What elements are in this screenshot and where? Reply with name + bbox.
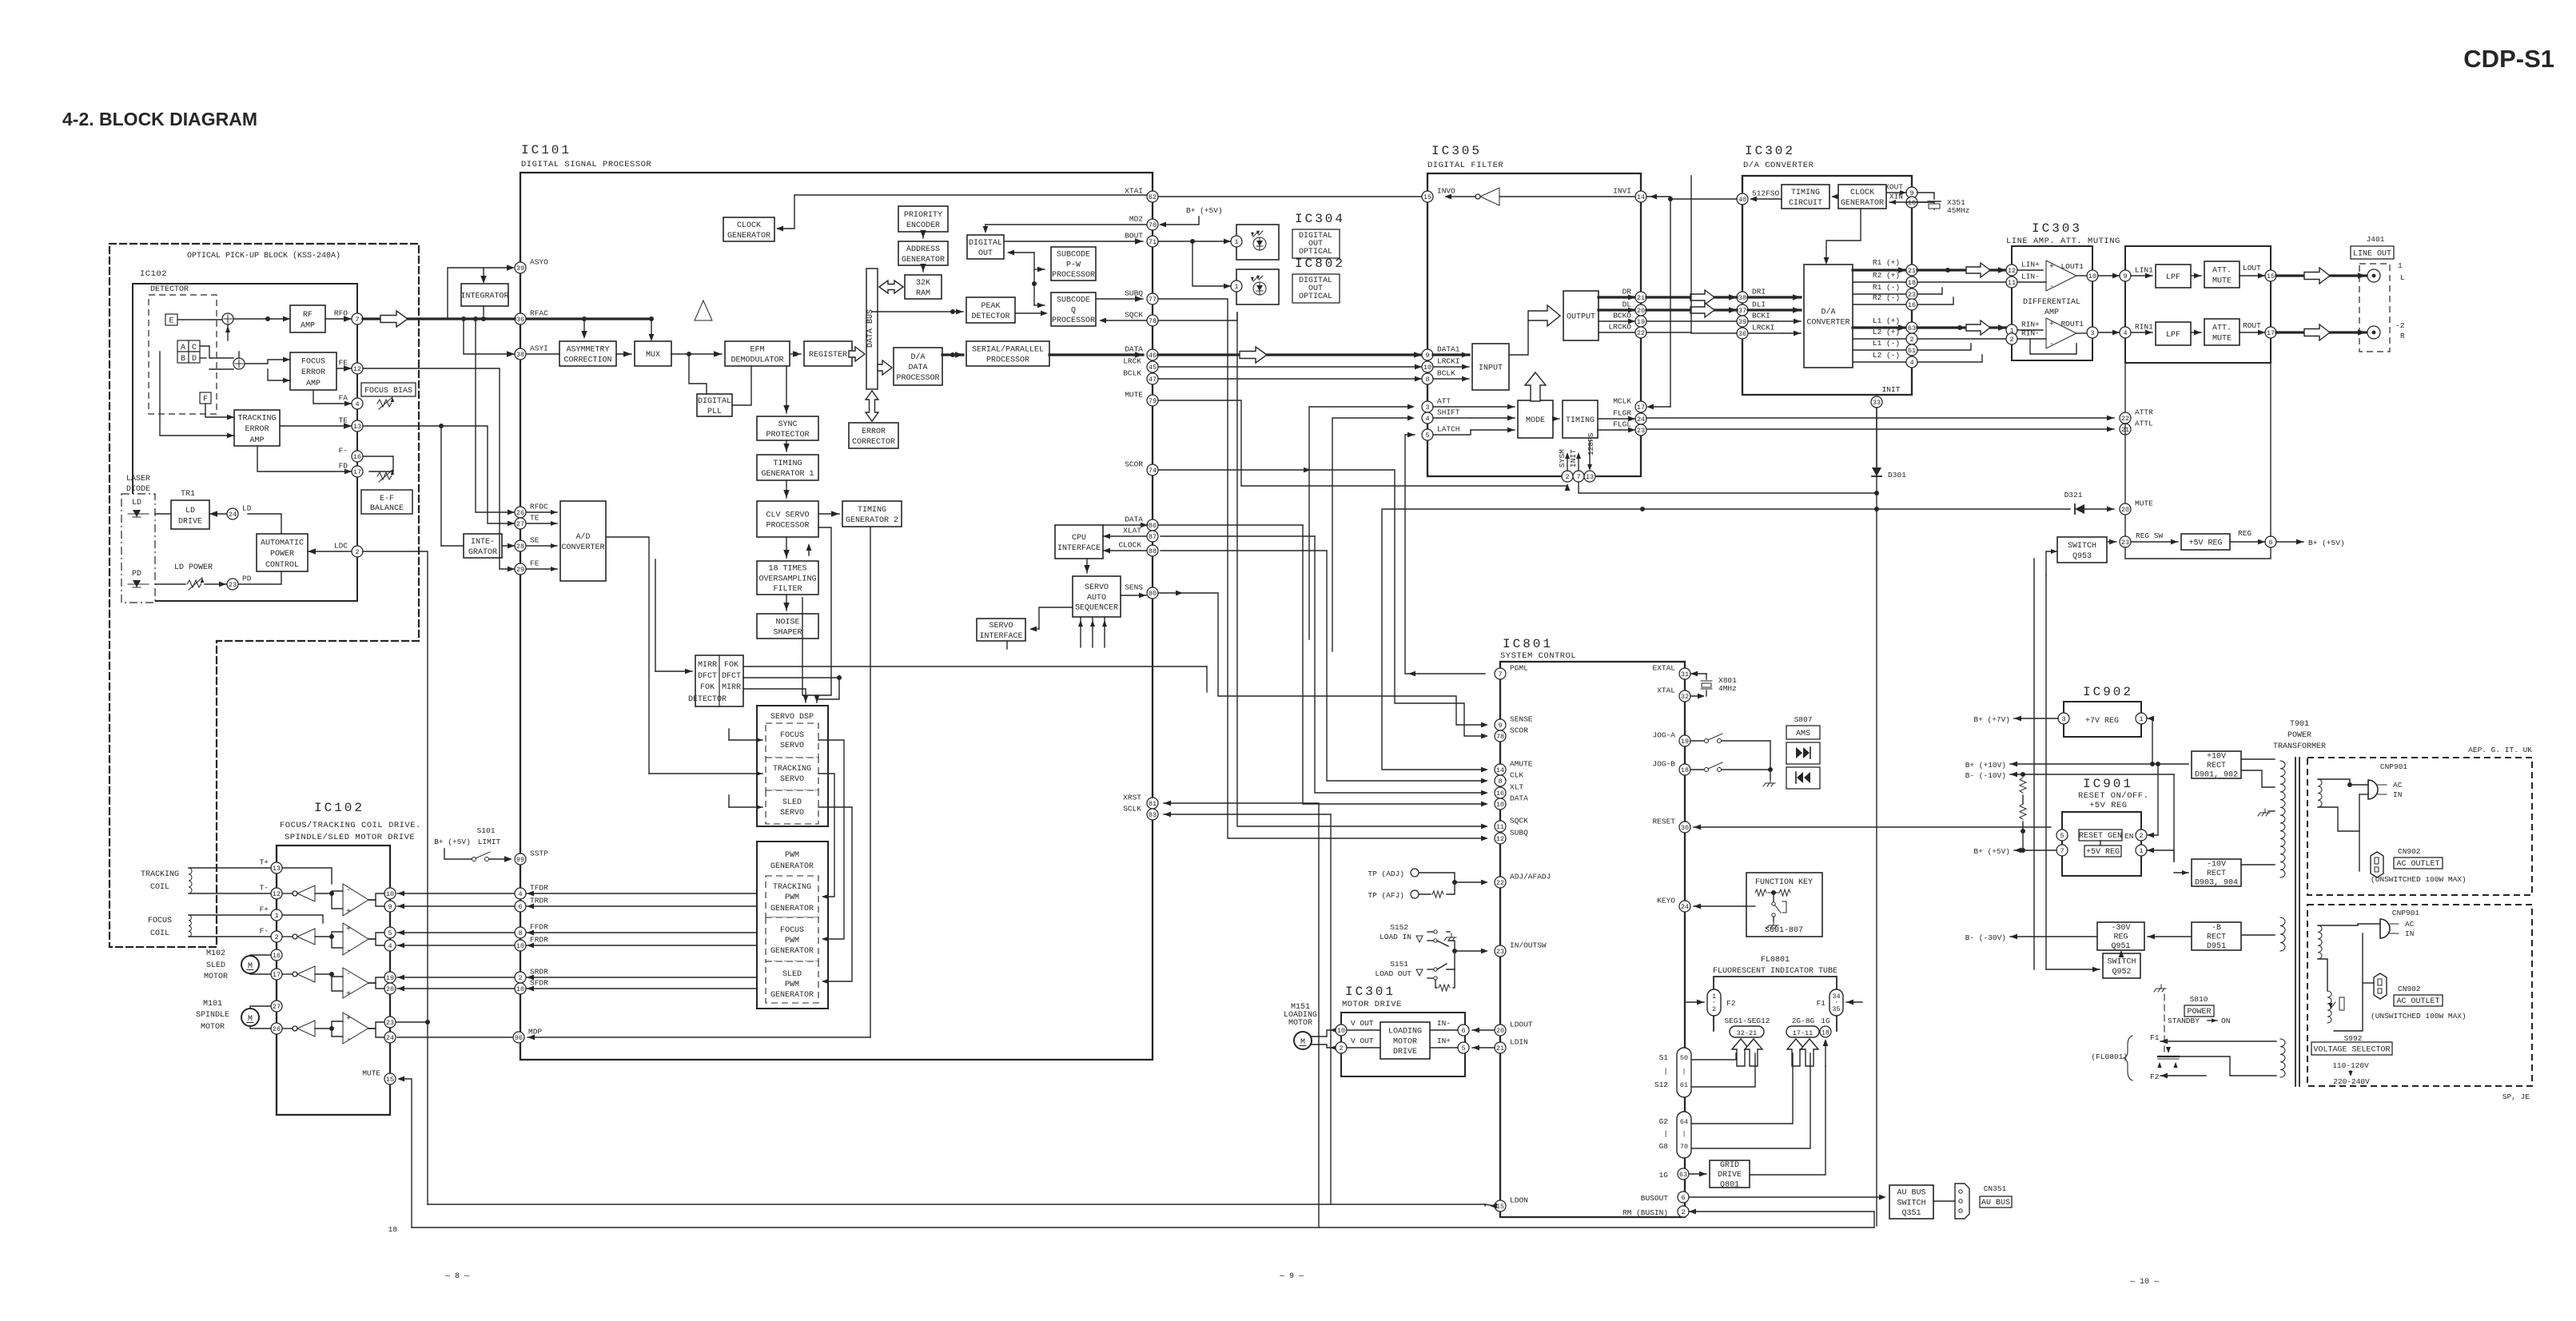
svg-text:LINE AMP. ATT. MUTING: LINE AMP. ATT. MUTING bbox=[2006, 237, 2120, 246]
svg-text:26: 26 bbox=[273, 1025, 281, 1033]
svg-text:LOAD OUT: LOAD OUT bbox=[1375, 969, 1411, 978]
svg-text:LD POWER: LD POWER bbox=[174, 563, 213, 572]
svg-text:220-240V: 220-240V bbox=[2333, 1077, 2370, 1086]
svg-text:FL0801: FL0801 bbox=[1761, 956, 1790, 965]
svg-text:IC303: IC303 bbox=[2032, 221, 2082, 236]
svg-text:2: 2 bbox=[518, 974, 522, 982]
A/D CONVERTER box bbox=[560, 501, 606, 581]
svg-text:DATA: DATA bbox=[1125, 515, 1143, 524]
svg-text:AC OUTLET: AC OUTLET bbox=[2396, 860, 2439, 869]
wire bus to da processor bbox=[878, 360, 892, 375]
svg-text:EFM: EFM bbox=[750, 345, 764, 354]
wires OUTPUT to pins DR DL BCKO LRCKO bbox=[1599, 296, 1635, 298]
svg-text:18 TIMES: 18 TIMES bbox=[768, 565, 806, 574]
svg-text:|: | bbox=[1663, 1129, 1668, 1138]
diode D321 bbox=[2075, 504, 2084, 514]
svg-text:5: 5 bbox=[1425, 432, 1429, 440]
FOCUS BIAS label bbox=[361, 383, 416, 396]
pin 4 SHIFT bbox=[1422, 408, 1460, 424]
svg-text:T+: T+ bbox=[260, 858, 269, 867]
svg-text:88: 88 bbox=[1149, 547, 1157, 555]
hollow arrows between IC305 and IC302 bbox=[1690, 290, 1714, 304]
wire detector left to tracking amp bbox=[160, 352, 234, 436]
pin 22 LRCKO bbox=[1608, 323, 1646, 339]
svg-text:LRCKI: LRCKI bbox=[1437, 357, 1460, 366]
wire servo auto seq SENS bbox=[1121, 595, 1146, 596]
pin 11 LIN- bbox=[2006, 273, 2040, 288]
AU BUS SWITCH Q351 box bbox=[1889, 1185, 1933, 1219]
svg-text:RAM: RAM bbox=[916, 289, 930, 298]
pin 21 ATTL bbox=[2120, 420, 2153, 436]
svg-text:F: F bbox=[203, 396, 208, 404]
wire LOUT1 to LIN1 bbox=[2098, 275, 2120, 277]
wire INIT to IC302 and down bbox=[1579, 482, 1877, 493]
EFM DEMODULATOR box bbox=[725, 341, 790, 366]
wire F to TRACKING ERROR AMP bbox=[205, 404, 234, 417]
wire TRACKING ERROR AMP to pin 13 bbox=[280, 425, 352, 427]
svg-text:POWER: POWER bbox=[270, 550, 294, 559]
svg-text:PROTECTOR: PROTECTOR bbox=[766, 431, 809, 440]
svg-text:26: 26 bbox=[516, 509, 524, 517]
IC901 pin 1 bbox=[2136, 845, 2147, 856]
svg-text:6: 6 bbox=[2268, 539, 2272, 547]
svg-text:CORRECTION: CORRECTION bbox=[563, 356, 611, 365]
pin 99 SSTP bbox=[515, 849, 548, 865]
INTEGRATOR box bbox=[460, 284, 508, 306]
wire cpu to servo auto seq bbox=[1086, 559, 1088, 573]
power switch mechanism bbox=[2157, 1047, 2179, 1068]
tracking coil symbol bbox=[189, 868, 192, 893]
wire B+10V rail bbox=[2010, 763, 2188, 765]
F1 arrow in bbox=[1846, 1001, 1862, 1003]
svg-text:DFCT: DFCT bbox=[698, 672, 717, 681]
svg-text:ATT: ATT bbox=[1437, 397, 1451, 406]
svg-text:14: 14 bbox=[1496, 766, 1504, 774]
svg-text:SUBQ: SUBQ bbox=[1125, 289, 1143, 298]
svg-text:PEAK: PEAK bbox=[981, 302, 1000, 311]
svg-text:TRDR: TRDR bbox=[530, 897, 548, 905]
wire F2 bbox=[2160, 1075, 2206, 1076]
bus to ram double arrow bbox=[879, 281, 903, 293]
svg-text:XTAL: XTAL bbox=[1657, 686, 1675, 695]
svg-text:LOUT: LOUT bbox=[2243, 264, 2261, 273]
wire subcode q to pin 77 bbox=[1096, 298, 1143, 300]
svg-text:+10V: +10V bbox=[2207, 752, 2226, 761]
svg-text:J401: J401 bbox=[2367, 235, 2385, 244]
svg-text:DIGITAL: DIGITAL bbox=[969, 239, 1002, 248]
svg-text:PROCESSOR: PROCESSOR bbox=[1052, 271, 1095, 280]
wires plug to winding upper bbox=[2318, 779, 2368, 785]
svg-text:R2 (-): R2 (-) bbox=[1873, 293, 1900, 302]
wire BUSOUT right bbox=[1689, 1196, 1884, 1198]
wire INPUT to OUTPUT loop bbox=[1509, 320, 1528, 355]
svg-text:D951: D951 bbox=[2207, 942, 2226, 951]
wire -B rect to -30V reg bbox=[2148, 936, 2192, 937]
svg-text:CIRCUIT: CIRCUIT bbox=[1789, 199, 1822, 208]
inverter between INVI and INVO bbox=[1444, 188, 1635, 205]
svg-text:LPF: LPF bbox=[2166, 331, 2180, 340]
wires XOUT XIN bbox=[1886, 192, 1906, 193]
svg-text:18: 18 bbox=[1681, 766, 1689, 774]
svg-text:CN902: CN902 bbox=[2398, 985, 2421, 993]
svg-text:12: 12 bbox=[353, 365, 361, 373]
pin 13 T+ bbox=[260, 858, 282, 874]
svg-text:LD: LD bbox=[185, 507, 195, 515]
svg-text:OUT: OUT bbox=[978, 249, 993, 258]
pin 5 IN+ bbox=[1458, 1042, 1469, 1053]
pin 4 RIN1 bbox=[2120, 323, 2153, 339]
svg-text:4MHz: 4MHz bbox=[1718, 684, 1737, 693]
svg-text:FLGL: FLGL bbox=[1613, 420, 1631, 429]
wire RF junction down to MUX bbox=[651, 319, 652, 338]
svg-text:V OUT: V OUT bbox=[1351, 1037, 1374, 1045]
wire tracking amp down to FD bbox=[257, 446, 352, 472]
svg-text:CN351: CN351 bbox=[1984, 1184, 2007, 1193]
svg-text:JOG-B: JOG-B bbox=[1652, 760, 1675, 769]
svg-text:AEP. G. IT. UK: AEP. G. IT. UK bbox=[2468, 746, 2532, 754]
svg-text:S1: S1 bbox=[1659, 1053, 1669, 1062]
svg-text:31: 31 bbox=[1681, 670, 1689, 678]
wire clock gen to timing circuit bbox=[1833, 196, 1838, 197]
pin 26 spindle bbox=[271, 1023, 282, 1034]
svg-text:LRCKO: LRCKO bbox=[1608, 323, 1631, 332]
svg-text:MODE: MODE bbox=[1526, 416, 1545, 425]
svg-text:B+ (+5V): B+ (+5V) bbox=[1973, 847, 2010, 856]
svg-text:PWM: PWM bbox=[785, 981, 799, 989]
svg-text:RF: RF bbox=[303, 311, 313, 320]
svg-text:SPINDLE/SLED MOTOR DRIVE: SPINDLE/SLED MOTOR DRIVE bbox=[285, 833, 415, 842]
RF hollow arrow bbox=[380, 311, 408, 327]
wires into servo dsp left bbox=[729, 739, 762, 741]
SEG oval 32-21 bbox=[1730, 1026, 1764, 1037]
svg-text:DRIVE: DRIVE bbox=[1718, 1171, 1742, 1180]
svg-text:S801-807: S801-807 bbox=[1765, 926, 1803, 935]
svg-text:RIN1: RIN1 bbox=[2135, 323, 2153, 332]
svg-text:SERVO: SERVO bbox=[780, 742, 804, 750]
pin 12 LIN+ bbox=[2006, 261, 2040, 277]
svg-text:21: 21 bbox=[1908, 267, 1916, 275]
KEYO wire bbox=[1694, 905, 1746, 907]
+5V REG box bbox=[2181, 534, 2230, 550]
svg-text:TRACKING: TRACKING bbox=[773, 765, 811, 774]
grid block arrows up bbox=[1787, 1039, 1805, 1066]
svg-text:20: 20 bbox=[2121, 506, 2129, 514]
svg-text:14: 14 bbox=[1637, 193, 1645, 201]
D/A DATA PROCESSOR box bbox=[894, 348, 942, 385]
svg-text:+: + bbox=[346, 990, 351, 999]
svg-text:10: 10 bbox=[2088, 273, 2096, 281]
svg-text:+: + bbox=[2049, 263, 2054, 272]
wire A/D converter inputs bbox=[527, 511, 557, 513]
pin 80 SENS bbox=[1125, 583, 1158, 599]
svg-text:2: 2 bbox=[1339, 1044, 1343, 1052]
svg-text:10: 10 bbox=[1423, 364, 1431, 372]
svg-text:27: 27 bbox=[516, 520, 524, 528]
svg-text:LD: LD bbox=[242, 504, 252, 513]
primary winding upper box bbox=[2318, 779, 2322, 807]
svg-text:— 8 —: — 8 — bbox=[444, 1272, 470, 1281]
svg-text:3: 3 bbox=[2061, 715, 2065, 723]
pin 12 SUBQ bbox=[1495, 829, 1528, 845]
svg-text:|: | bbox=[1682, 1130, 1686, 1138]
transformer secondary winding lower bbox=[2280, 1039, 2285, 1077]
svg-text:TE: TE bbox=[339, 416, 348, 425]
svg-text:61: 61 bbox=[1680, 1081, 1688, 1089]
NOISE SHAPER box bbox=[757, 614, 818, 639]
pin 10 DATA ic801 bbox=[1495, 794, 1528, 810]
svg-text:12: 12 bbox=[273, 890, 281, 898]
svg-text:-: - bbox=[346, 1036, 351, 1044]
wire MDP horizontal bbox=[528, 1037, 870, 1038]
wire B+ to pin 70 bbox=[1161, 217, 1199, 225]
SWITCH Q953 box bbox=[2057, 537, 2107, 563]
wire mute15 down to bus bbox=[404, 1079, 412, 1227]
wire DATA cpu to IC801 bbox=[1303, 525, 1485, 804]
wires input to DA box bbox=[1748, 296, 1801, 298]
svg-text:DL: DL bbox=[1622, 300, 1632, 309]
pin 78 SCOR ic801 bbox=[1495, 726, 1528, 742]
svg-text:XOUT: XOUT bbox=[1885, 183, 1903, 192]
svg-text:TP (ADJ): TP (ADJ) bbox=[1368, 869, 1404, 878]
svg-text:SERIAL/PARALLEL: SERIAL/PARALLEL bbox=[972, 344, 1044, 354]
wire LOUT to jack L bbox=[2276, 274, 2366, 277]
svg-text:GRID: GRID bbox=[1720, 1161, 1739, 1170]
wire BOUT branch to IC802 bbox=[1192, 241, 1231, 286]
wire subcode feed vertical bbox=[1033, 253, 1035, 305]
diode D301 bbox=[1872, 468, 1881, 476]
pin 4 FA bbox=[339, 394, 363, 410]
pin 39 ASYO bbox=[515, 258, 548, 274]
transformer secondary winding mid bbox=[2280, 917, 2285, 951]
wire SQCK to subcode q bbox=[1101, 320, 1147, 321]
optical pick-up block dashed outline bbox=[109, 244, 419, 947]
pin 8 BCLK ic305 bbox=[1422, 369, 1455, 385]
svg-text:|: | bbox=[1663, 1067, 1668, 1076]
pin 71 BOUT bbox=[1125, 232, 1158, 248]
svg-text:SYNC: SYNC bbox=[778, 420, 797, 429]
pin 45 LRCK bbox=[1123, 357, 1158, 373]
svg-text:PROCESSOR: PROCESSOR bbox=[896, 374, 939, 383]
svg-text:39: 39 bbox=[516, 265, 524, 273]
svg-text:TFDR: TFDR bbox=[530, 884, 548, 893]
transformer center tap ground bbox=[2268, 810, 2275, 812]
wires IC801 LDOUT LDIN to IC301 bbox=[1472, 1029, 1495, 1031]
CLOCK GENERATOR box IC302 bbox=[1838, 185, 1886, 209]
svg-text:Q952: Q952 bbox=[2112, 968, 2131, 977]
svg-text:INTE-: INTE- bbox=[471, 538, 495, 547]
AMS key box bbox=[1786, 726, 1820, 739]
svg-text:G8: G8 bbox=[1659, 1142, 1669, 1151]
AC plug symbol lower bbox=[2380, 919, 2399, 938]
IC302 box outline bbox=[1742, 176, 1912, 395]
focus coil symbol bbox=[189, 915, 191, 937]
E-F BALANCE box bbox=[361, 490, 412, 514]
svg-text:CNP901: CNP901 bbox=[2380, 762, 2408, 771]
svg-text:MOTOR: MOTOR bbox=[1288, 1019, 1312, 1028]
svg-text:IC102: IC102 bbox=[140, 269, 167, 279]
svg-text:DRI: DRI bbox=[1752, 288, 1766, 296]
svg-text:SERVO: SERVO bbox=[780, 775, 804, 784]
svg-text:|: | bbox=[1682, 1068, 1686, 1076]
wire E to sum1 bbox=[177, 319, 222, 320]
wire LDC down and right to bottom bus bbox=[363, 551, 428, 1204]
svg-text:R1 (+): R1 (+) bbox=[1873, 258, 1900, 267]
detector quad A C B D bbox=[177, 340, 200, 364]
svg-text:FOCUS: FOCUS bbox=[780, 731, 804, 740]
wire TE pin13 to IC101 TE bbox=[363, 426, 515, 523]
svg-text:13: 13 bbox=[353, 423, 361, 431]
svg-text:1G: 1G bbox=[1659, 1171, 1669, 1180]
LOADING MOTOR DRIVE box bbox=[1380, 1022, 1430, 1059]
svg-text:23: 23 bbox=[1637, 427, 1645, 435]
svg-text:18: 18 bbox=[1822, 1029, 1829, 1037]
svg-text:1: 1 bbox=[1234, 238, 1238, 246]
pin 1 RIN+ bbox=[2006, 320, 2040, 336]
bus wire LDON bbox=[428, 1204, 1485, 1205]
pin 9 DATA1 bbox=[1422, 345, 1460, 361]
svg-text:11: 11 bbox=[2008, 279, 2016, 287]
svg-text:PROCESSOR: PROCESSOR bbox=[1052, 316, 1095, 325]
-10V RECT D903 904 box bbox=[2192, 859, 2241, 888]
svg-text:CNP901: CNP901 bbox=[2392, 909, 2420, 917]
svg-text:GENERATOR: GENERATOR bbox=[770, 862, 814, 871]
wire into detector bbox=[655, 670, 692, 672]
svg-text:PROCESSOR: PROCESSOR bbox=[766, 522, 809, 531]
svg-text:36: 36 bbox=[516, 316, 524, 324]
sled motor wires bbox=[250, 955, 271, 956]
wire pin23 to APC bottom bbox=[239, 571, 281, 584]
svg-text:AC: AC bbox=[2393, 781, 2403, 790]
svg-text:S151: S151 bbox=[1390, 960, 1408, 969]
wires G pill to grid arrows bbox=[1691, 1053, 1793, 1124]
svg-text:SERVO DSP: SERVO DSP bbox=[770, 713, 814, 722]
wires opamps to right pins bbox=[315, 891, 343, 893]
svg-text:4-2. BLOCK DIAGRAM: 4-2. BLOCK DIAGRAM bbox=[62, 109, 257, 129]
svg-text:37: 37 bbox=[1738, 307, 1746, 315]
wire register to bus bbox=[849, 347, 865, 361]
svg-text:2: 2 bbox=[1681, 1208, 1685, 1216]
pin 62 XTAI bbox=[1125, 187, 1158, 203]
svg-text:ADJ/AFADJ: ADJ/AFADJ bbox=[1510, 873, 1551, 881]
svg-text:FOCUS: FOCUS bbox=[148, 917, 172, 925]
wire switch to connector bbox=[1933, 1200, 1955, 1202]
svg-text:TIMING: TIMING bbox=[1566, 416, 1595, 425]
svg-text:FE: FE bbox=[339, 359, 348, 368]
S151 LOAD OUT switch bbox=[1375, 932, 1456, 991]
svg-text:29: 29 bbox=[516, 566, 524, 574]
outlet symbol lower bbox=[2374, 973, 2387, 999]
svg-text:B+ (+5V): B+ (+5V) bbox=[1186, 206, 1223, 215]
pin 8 FFDR bbox=[515, 923, 548, 939]
F1 filament oval bbox=[1829, 989, 1843, 1016]
svg-text:SCOR: SCOR bbox=[1125, 460, 1143, 469]
wire into integrator2 bbox=[441, 545, 464, 547]
svg-text:BCLK: BCLK bbox=[1123, 369, 1141, 378]
svg-text:SE: SE bbox=[530, 536, 539, 545]
svg-text:G2: G2 bbox=[1659, 1117, 1669, 1126]
svg-text:R1 (-): R1 (-) bbox=[1873, 283, 1900, 292]
bus to error corrector double arrow bbox=[866, 391, 878, 421]
wire RF AMP to pin 7 bbox=[325, 318, 352, 320]
pin 24 LD bbox=[227, 504, 252, 520]
svg-text:AC: AC bbox=[2405, 920, 2415, 929]
wire pin 40 out left and down to MCLK bbox=[1670, 199, 1737, 407]
svg-text:-: - bbox=[2049, 283, 2054, 292]
IC901 pin 5 bbox=[2056, 830, 2068, 841]
wires DA box to right pins L bbox=[1853, 326, 1906, 328]
wire LATCH arrowhead bbox=[1407, 432, 1415, 438]
wire into au bus switch bbox=[1879, 1195, 1886, 1200]
VOLTAGE SELECTOR label box bbox=[2311, 1042, 2392, 1055]
pin 38 DRI bbox=[1737, 288, 1766, 304]
svg-text:BALANCE: BALANCE bbox=[370, 504, 404, 513]
svg-text:50: 50 bbox=[1680, 1054, 1688, 1062]
svg-text:22: 22 bbox=[2121, 415, 2129, 423]
svg-text:4: 4 bbox=[388, 942, 392, 950]
RCA jack R bbox=[2367, 326, 2380, 339]
REW key box bbox=[1786, 767, 1820, 789]
svg-text:DR: DR bbox=[1622, 288, 1632, 296]
svg-text:FOCUS BIAS: FOCUS BIAS bbox=[364, 387, 412, 396]
IC304 pin 1 bbox=[1231, 236, 1242, 247]
svg-text:SWITCH: SWITCH bbox=[1897, 1199, 1925, 1208]
svg-text:DETECTOR: DETECTOR bbox=[150, 285, 189, 294]
wire outlet lower bbox=[2363, 982, 2374, 984]
wires into L opamp bbox=[2017, 269, 2043, 271]
wire SYSM INIT up stubs bbox=[1567, 456, 1568, 471]
svg-text:24: 24 bbox=[1681, 903, 1689, 911]
svg-text:13: 13 bbox=[273, 865, 281, 873]
svg-text:DETECTOR: DETECTOR bbox=[688, 695, 727, 704]
svg-text:10: 10 bbox=[1496, 801, 1504, 809]
wire opamp to pin3 bbox=[2076, 332, 2087, 334]
svg-text:OPTICAL: OPTICAL bbox=[1299, 248, 1332, 257]
POWER label box bbox=[2184, 1005, 2214, 1017]
pin 79 MUTE bbox=[1125, 391, 1158, 407]
wire RM BUSIN right bbox=[1689, 1211, 1874, 1212]
wire integrator output down to RFAC line bbox=[483, 306, 484, 316]
svg-text:RESET GEN: RESET GEN bbox=[2079, 832, 2122, 841]
svg-text:CDP-S1: CDP-S1 bbox=[2463, 45, 2554, 73]
1G arrow up bbox=[1825, 1040, 1826, 1066]
svg-text:MUTE: MUTE bbox=[362, 1069, 380, 1078]
svg-text:9: 9 bbox=[388, 903, 392, 911]
wire PD to pin 23 bbox=[155, 583, 185, 585]
svg-text:77: 77 bbox=[1149, 296, 1157, 304]
svg-text:FILTER: FILTER bbox=[773, 585, 802, 594]
wire sync to timing gen1 bbox=[786, 440, 787, 452]
pin 1 F+ bbox=[260, 905, 282, 921]
svg-text:DIGITAL: DIGITAL bbox=[698, 397, 731, 406]
pin 87 XLAT bbox=[1123, 527, 1158, 543]
svg-text:1: 1 bbox=[2139, 715, 2143, 723]
svg-text:2: 2 bbox=[1909, 336, 1913, 344]
AU BUS label box bbox=[1980, 1196, 2012, 1208]
svg-text:78: 78 bbox=[1149, 317, 1157, 325]
svg-text:10: 10 bbox=[516, 942, 524, 950]
svg-text:TR1: TR1 bbox=[181, 490, 195, 499]
svg-text:AMS: AMS bbox=[1796, 730, 1810, 738]
svg-text:KEYO: KEYO bbox=[1657, 897, 1675, 905]
wire FOK out bbox=[743, 666, 1207, 667]
SERVO INTERFACE box bbox=[977, 619, 1025, 641]
wire INVI from right bbox=[1646, 196, 1670, 197]
svg-text:DATA: DATA bbox=[1125, 345, 1143, 354]
svg-text:RECT: RECT bbox=[2207, 869, 2226, 878]
IC902 pin 3 bbox=[2058, 713, 2069, 724]
svg-text:ERROR: ERROR bbox=[245, 425, 269, 434]
pin 6 BUSOUT bbox=[1678, 1192, 1689, 1203]
